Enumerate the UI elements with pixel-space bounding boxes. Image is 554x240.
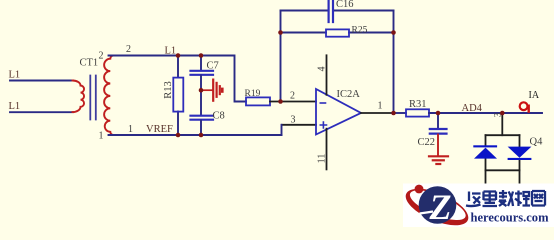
wire Q4 top rail [486,134,520,136]
svg-text:C8: C8 [213,111,225,122]
node feedback left [278,99,283,104]
wire Q4 right stub [519,135,521,184]
resistor R19 [246,97,270,105]
node R13 bottom [176,133,181,138]
ground C22 bars [429,156,448,164]
op-amp pin 11 line [326,129,328,170]
wire pin3 to VREF [281,125,283,135]
svg-text:R25: R25 [352,26,368,36]
node R25 left [278,30,283,35]
op-amp pin 4 line [326,55,328,95]
transformer CT1 primary coil [73,81,85,113]
wire C7 to C8 [200,76,202,116]
svg-text:4: 4 [317,67,328,72]
svg-text:R19: R19 [245,89,261,99]
wire C7 top [200,56,202,71]
char 里 [483,192,498,207]
node output [391,111,396,116]
svg-text:IC2A: IC2A [337,89,361,100]
wire feedback left vertical [280,11,282,102]
wire AD4 [429,112,542,114]
wire Q4 stub from AD4 [501,113,503,135]
svg-text:AD4: AD4 [462,103,483,114]
wire VREF bottom [109,134,282,136]
svg-text:CT1: CT1 [80,58,99,69]
node ground mid [199,88,204,93]
char 网 [532,191,545,206]
port IA [520,102,529,113]
svg-text:3: 3 [291,114,296,125]
op-amp IC2A [316,89,361,135]
wire R13 bottom [177,112,179,136]
node C7 top [199,53,204,58]
capacitor C16 [329,0,333,22]
logo circle [419,186,457,224]
wire C8 bottom [200,121,202,136]
wire output to R31 [392,112,406,114]
wire op-amp pin3 [282,124,316,126]
svg-text:Z: Z [429,187,452,227]
char 教 [499,190,513,206]
svg-text:2: 2 [126,44,131,55]
wire feedback top rail [281,10,394,12]
transformer CT1 core [90,76,96,120]
wire L1 bottom [10,111,73,113]
logo ring blob [415,185,424,194]
wire feedback right vertical [393,11,395,114]
wire Q4 bottom rail [486,169,520,171]
svg-text:R13: R13 [163,81,174,99]
resistor R25 [326,29,349,36]
op-amp plus sign [320,122,326,128]
svg-text:L1: L1 [165,46,177,57]
svg-text:Q4: Q4 [530,137,544,148]
svg-text:11: 11 [317,154,328,164]
wire R13 top [177,56,179,78]
node C22 top [436,111,441,116]
transformer CT1 secondary coil [104,56,113,136]
wire R19 to op-amp pin2 [270,101,316,103]
svg-text:1: 1 [128,124,133,135]
wire Q4 left stub [485,135,487,184]
wire L1 top [10,80,73,82]
svg-text:L1: L1 [9,70,21,81]
capacitor C8 [191,116,214,120]
diode Q4 left (pointing up) [473,145,497,158]
char 程 [515,191,530,207]
svg-text:3: 3 [493,112,503,117]
node R25 right [391,30,396,35]
svg-text:VREF: VREF [146,124,173,135]
wire R25 rail [281,32,394,34]
svg-text:1: 1 [378,101,383,112]
char 这 [466,192,481,207]
node Q4 top [500,111,505,116]
resistor R13 [173,78,183,112]
logo Z swash [420,212,434,214]
wire C22 top [437,113,439,128]
wire op-amp output [361,112,392,114]
svg-text:1: 1 [99,131,104,142]
node C8 bottom [199,133,204,138]
earth ground mid [201,80,222,101]
svg-text:C22: C22 [418,137,436,148]
diode Q4 right (pointing down) [508,147,532,160]
svg-text:R31: R31 [409,99,427,110]
svg-text:C16: C16 [336,0,354,10]
svg-text:2: 2 [290,91,295,102]
svg-text:L1: L1 [9,101,21,112]
capacitor C22 [430,129,447,134]
logo chinese text 这里教程网 [466,190,545,206]
svg-text:C7: C7 [207,61,219,72]
svg-text:herecours.com: herecours.com [471,210,549,225]
capacitor C7 [191,71,214,75]
wire top net L1 [109,56,247,102]
watermark box [403,184,554,228]
ground C22 stem [437,135,439,156]
op-amp minus sign [320,102,325,104]
svg-text:IA: IA [529,90,540,101]
logo ring [401,181,473,233]
svg-text:2: 2 [99,51,104,62]
node R13 top [176,53,181,58]
resistor R31 [406,109,429,116]
